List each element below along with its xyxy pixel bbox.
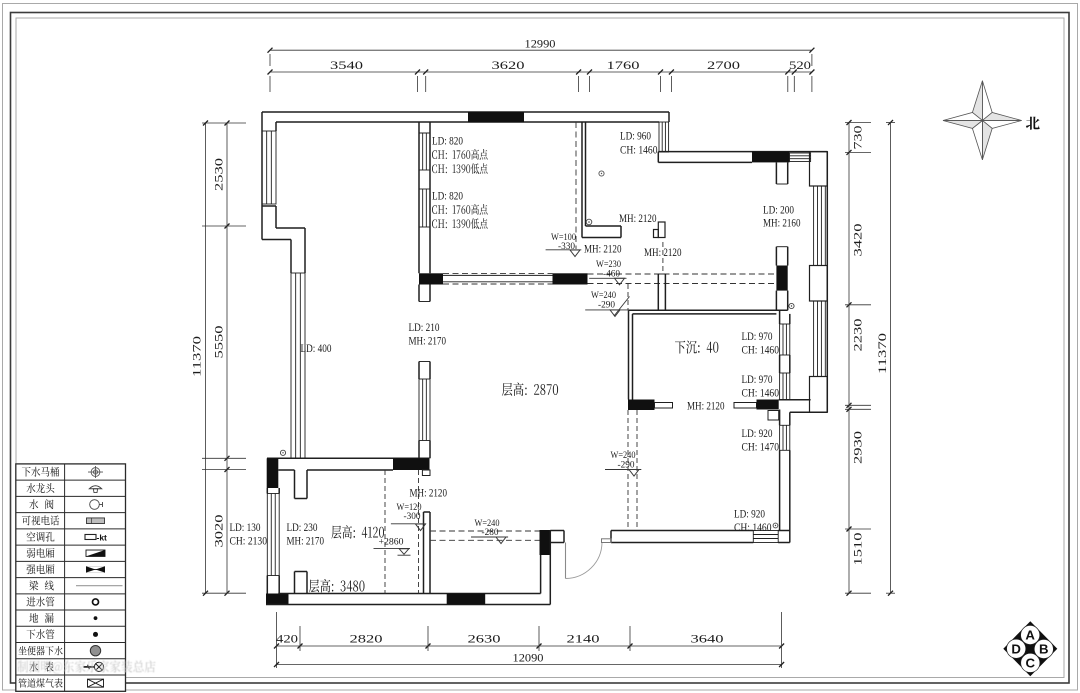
svg-text:11370: 11370 xyxy=(192,336,204,377)
wall bottom band xyxy=(278,593,540,595)
svg-text:2230: 2230 xyxy=(853,318,865,351)
wall right below step xyxy=(779,410,781,426)
entry door stop bar xyxy=(602,539,612,543)
svg-text:LD: 230: LD: 230 xyxy=(287,522,318,534)
dimension chain right xyxy=(848,123,850,594)
column black right wall xyxy=(776,266,787,291)
svg-text:3640: 3640 xyxy=(691,634,724,646)
svg-text:-300: -300 xyxy=(404,511,421,522)
svg-text:LD: 960: LD: 960 xyxy=(620,131,651,143)
svg-text:MH: 2120: MH: 2120 xyxy=(584,244,622,256)
svg-text:LD: 970: LD: 970 xyxy=(742,331,773,343)
symbol circle top of bottom section xyxy=(280,450,285,455)
svg-text:520: 520 xyxy=(789,60,811,72)
dimension total right 11370 xyxy=(890,123,892,594)
legend symbol inlet pipe xyxy=(93,599,99,605)
wall below black to sunken room xyxy=(775,291,777,311)
bay column top xyxy=(810,152,828,186)
svg-text:3420: 3420 xyxy=(853,223,865,256)
legend labels xyxy=(22,467,31,477)
svg-text:2630: 2630 xyxy=(468,634,501,646)
svg-text:LD: 400: LD: 400 xyxy=(301,343,332,355)
svg-text:2140: 2140 xyxy=(567,634,600,646)
svg-text:MH: 2120: MH: 2120 xyxy=(644,247,682,259)
dashed verticals below sunken xyxy=(627,410,629,531)
column black beam right xyxy=(553,273,588,284)
wall top band right section xyxy=(658,151,827,153)
svg-text:2700: 2700 xyxy=(707,60,740,72)
wall left of bottom section xyxy=(266,488,268,494)
column black bottom section top-left xyxy=(267,458,279,488)
bay window W9 xyxy=(814,301,826,377)
wall above window W5 xyxy=(418,362,420,380)
wall stub middle x658-665 xyxy=(657,274,659,310)
beam dashed to right xyxy=(588,273,777,275)
dimension total 12090 xyxy=(277,664,782,666)
wall bathroom left xyxy=(581,122,583,238)
svg-text:LD: 970: LD: 970 xyxy=(742,374,773,386)
wall entry column band xyxy=(540,555,542,594)
svg-text:LD: 920: LD: 920 xyxy=(734,509,765,521)
wall bottom right band xyxy=(550,530,564,532)
wall left upper xyxy=(261,112,263,240)
svg-text:1510: 1510 xyxy=(853,532,865,565)
window horizontal W13 xyxy=(790,153,811,162)
wall left step xyxy=(262,205,276,207)
svg-text:D: D xyxy=(1011,641,1021,656)
svg-text:LD: 820: LD: 820 xyxy=(432,191,463,203)
svg-text:LD: 820: LD: 820 xyxy=(432,136,463,148)
wall stub right interior lower xyxy=(775,247,777,266)
column black sunken bottom-right xyxy=(757,400,779,410)
bay column middle xyxy=(810,266,828,302)
svg-text:B: B xyxy=(1039,642,1049,657)
window W3 LD820 xyxy=(419,133,430,170)
wall step to bay xyxy=(779,399,811,401)
column black bottom section top-right xyxy=(393,458,430,470)
legend symbol toilet outlet xyxy=(90,645,100,655)
window sunken right W10a xyxy=(780,324,790,355)
column black top band xyxy=(468,112,524,122)
symbol circle bathroom corner xyxy=(586,219,592,225)
dashed x628 beam to sunken xyxy=(627,284,629,310)
window bottom-left W6 LD130 xyxy=(267,494,279,576)
dimension total left 11370 xyxy=(205,123,207,593)
window bottom W12 xyxy=(753,531,778,543)
dashed verticals room 4120 xyxy=(384,470,386,594)
wall stub interior lower xyxy=(294,572,296,594)
svg-text:-kt: -kt xyxy=(97,532,108,542)
svg-text:5550: 5550 xyxy=(214,325,226,358)
legend symbol water meter xyxy=(84,662,104,671)
svg-text:2530: 2530 xyxy=(214,158,226,191)
legend symbol faucet xyxy=(89,486,101,493)
svg-text:CH: 2130: CH: 2130 xyxy=(230,536,268,548)
legend table grid xyxy=(16,464,126,691)
svg-text:1760: 1760 xyxy=(607,60,640,72)
window sunken right W10b xyxy=(780,373,790,400)
svg-text:-460: -460 xyxy=(603,268,620,279)
svg-text:MH: 2120: MH: 2120 xyxy=(619,213,657,225)
svg-text:730: 730 xyxy=(853,125,865,149)
wall below beam column xyxy=(418,285,420,302)
leader diagonal xyxy=(614,297,630,317)
legend symbol videophone xyxy=(87,518,105,524)
dashed jamb to lower wall xyxy=(662,242,664,272)
wall bottom section top band xyxy=(267,457,430,459)
legend symbol valve xyxy=(90,500,103,510)
symbol circle bottom right xyxy=(773,523,778,528)
white notch below sunken black xyxy=(768,411,779,421)
legend symbol drain pipe xyxy=(93,632,98,637)
beam lines living room xyxy=(443,274,553,276)
north label xyxy=(1026,117,1040,130)
watermark text xyxy=(17,660,155,673)
column black entry xyxy=(540,530,551,555)
svg-text:MH: 2170: MH: 2170 xyxy=(409,336,447,348)
window W4 LD820 xyxy=(419,189,430,227)
svg-text:A: A xyxy=(1025,628,1035,643)
entry door leaf xyxy=(565,543,567,579)
svg-text:11370: 11370 xyxy=(877,333,889,374)
svg-text:CH: 1460: CH: 1460 xyxy=(742,388,780,400)
door frame sunken left xyxy=(655,403,673,409)
svg-text:LD: 210: LD: 210 xyxy=(409,322,440,334)
window W5 LD210 xyxy=(419,379,430,441)
small box below black xyxy=(422,470,430,476)
svg-text:12990: 12990 xyxy=(525,38,556,50)
svg-text:2820: 2820 xyxy=(350,634,383,646)
svg-text:3540: 3540 xyxy=(330,60,363,72)
column black beam left xyxy=(419,273,443,284)
svg-text:+2860: +2860 xyxy=(379,537,404,548)
door frame sunken right xyxy=(734,403,757,409)
wall right lower xyxy=(779,450,781,530)
wall sunken left xyxy=(628,310,630,399)
bay window right outer wall xyxy=(826,152,828,413)
dimension chain bottom xyxy=(277,645,782,647)
svg-text:LD: 920: LD: 920 xyxy=(742,428,773,440)
wall interior x423-430 entry xyxy=(423,512,425,594)
column black top right band xyxy=(752,152,790,163)
wall sunken right mid box xyxy=(779,355,781,373)
label ceiling 3480 xyxy=(309,579,319,592)
wall bathroom door jamb right xyxy=(658,222,665,238)
window left living W2 LD400 xyxy=(291,273,305,458)
label ceiling 4120 xyxy=(331,526,341,539)
svg-text:C: C xyxy=(1026,656,1036,671)
svg-text:-280: -280 xyxy=(482,527,499,538)
svg-text:CH: 1470: CH: 1470 xyxy=(742,442,780,454)
window right W11 LD920 xyxy=(780,425,790,450)
svg-text:CH: 1460: CH: 1460 xyxy=(734,522,772,534)
wall vertical x419 xyxy=(418,122,420,273)
wall sunken right upper xyxy=(779,310,781,324)
symbol drain circle bathroom xyxy=(599,171,604,176)
dimension chain left xyxy=(226,123,228,593)
wall below window W5 xyxy=(418,441,420,459)
svg-text:MH: 2120: MH: 2120 xyxy=(410,488,448,500)
svg-text:MH: 2120: MH: 2120 xyxy=(687,401,725,413)
svg-text:-290: -290 xyxy=(618,460,635,471)
column black bottom-left corner xyxy=(266,594,289,605)
column black sunken bottom-left xyxy=(628,400,655,411)
legend symbol beam line xyxy=(76,585,123,587)
legend symbol toilet drain crosshair xyxy=(88,466,103,478)
logo circles ABCD xyxy=(1021,625,1040,644)
svg-text:MH: 2170: MH: 2170 xyxy=(287,536,325,548)
svg-text:-290: -290 xyxy=(598,300,615,311)
legend symbol weak current box xyxy=(86,550,105,556)
svg-text:420: 420 xyxy=(276,634,298,646)
logo diamond xyxy=(1003,621,1057,676)
label ceiling 2870 xyxy=(502,383,512,396)
dashed horizontals entry xyxy=(430,530,540,532)
bay column bottom xyxy=(810,377,828,413)
svg-text:2930: 2930 xyxy=(853,431,865,464)
wall bathroom bottom-left foot xyxy=(586,225,622,227)
svg-text:CH: 1460: CH: 1460 xyxy=(742,345,780,357)
window left upper W1 xyxy=(262,131,276,204)
bay window W8 xyxy=(814,186,826,266)
dimension total 12990 xyxy=(270,49,812,51)
label sunken 40 xyxy=(675,341,685,354)
legend symbol AC hole xyxy=(85,534,96,539)
wall sunken top xyxy=(629,309,788,311)
legend symbol strong current box xyxy=(86,566,105,572)
svg-text:LD: 200: LD: 200 xyxy=(763,205,794,217)
dimension chain top xyxy=(270,71,812,73)
legend symbol floor drain xyxy=(94,616,98,620)
wall top band xyxy=(262,111,669,113)
wall stub interior upper xyxy=(294,470,296,499)
window bathroom right W7 xyxy=(659,122,669,152)
wall stub right interior upper xyxy=(775,162,777,184)
svg-text:3020: 3020 xyxy=(214,514,226,547)
column black bottom band xyxy=(447,594,486,605)
legend symbol gas meter xyxy=(88,679,104,687)
svg-text:12090: 12090 xyxy=(513,653,544,665)
dashed beam line x576 xyxy=(575,122,577,249)
svg-text:MH: 2160: MH: 2160 xyxy=(763,218,801,230)
svg-text:3620: 3620 xyxy=(492,60,525,72)
svg-text:LD: 130: LD: 130 xyxy=(230,522,261,534)
svg-text:CH: 1460: CH: 1460 xyxy=(620,145,658,157)
north compass star xyxy=(943,81,1022,160)
symbol circle near bay window xyxy=(789,303,794,308)
